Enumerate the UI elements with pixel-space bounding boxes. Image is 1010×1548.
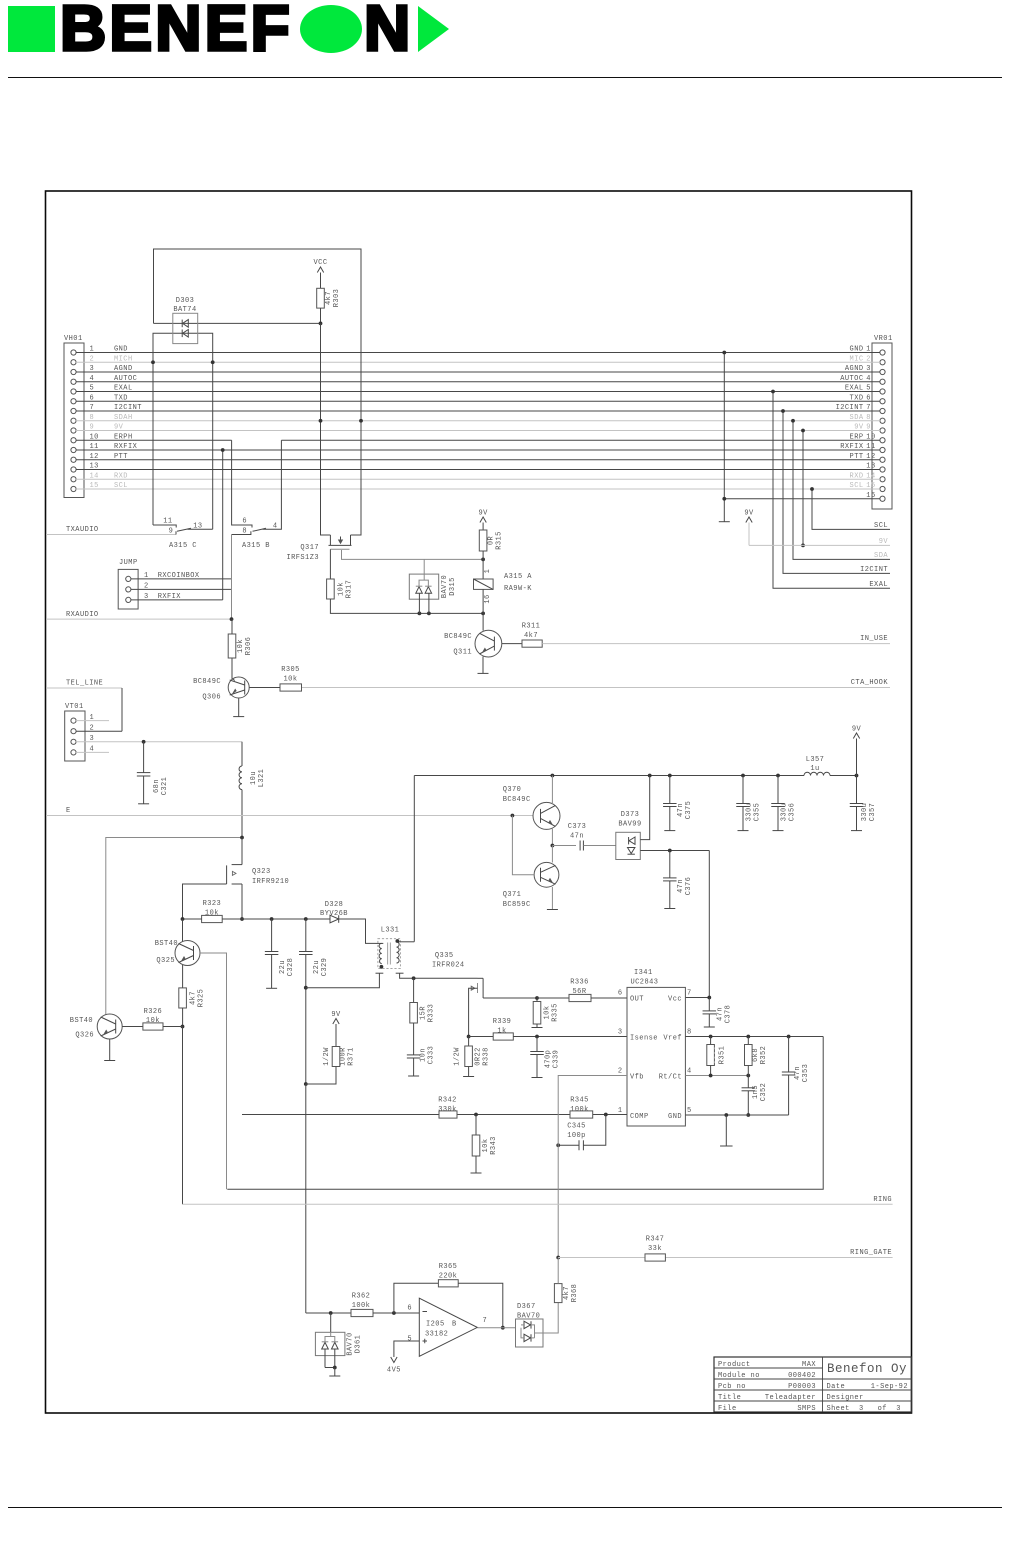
svg-text:D373: D373 [621,811,640,819]
svg-text:D367: D367 [517,1303,536,1311]
wire bus row 5 EXAL [76,391,880,393]
svg-text:C339: C339 [553,1050,561,1069]
wire C329 node chain [305,988,307,1084]
svg-text:100R: 100R [340,1047,348,1066]
svg-text:BC849C: BC849C [444,633,472,641]
switch A315 B [232,440,252,527]
wire R306 to Q306 [232,658,235,681]
svg-text:RXAUDIO: RXAUDIO [66,611,99,619]
svg-text:R305: R305 [281,666,300,674]
svg-text:1: 1 [484,569,492,574]
wire Vfb pin to chain [558,1076,627,1146]
svg-text:15: 15 [866,482,875,490]
svg-text:AUTOC: AUTOC [840,375,863,383]
wire Q306 emitter [238,699,240,717]
wire R336 to OUT pin [591,997,627,999]
ground C376 [664,908,675,910]
svg-text:IRFS1Z3: IRFS1Z3 [286,554,319,562]
header rule [8,77,1002,78]
ground C321 [138,803,149,805]
ground R343 [471,1172,482,1174]
ground GND drop [719,521,730,523]
resistor R368 [554,1284,562,1303]
wire R325 to node [182,1008,184,1027]
ground C356 [773,830,784,832]
resistor R351 [710,1037,712,1045]
svg-text:E: E [66,807,71,815]
svg-text:GND: GND [850,346,864,354]
svg-text:8: 8 [687,1029,692,1037]
svg-text:1n5: 1n5 [752,1085,760,1099]
wire L321 bottom [241,790,243,838]
svg-text:Vfb: Vfb [630,1074,644,1082]
resistor R306 [228,634,236,658]
wire 9V drop [802,431,804,546]
svg-text:TXD: TXD [850,394,864,402]
svg-text:10k: 10k [284,676,298,684]
ground C357 [851,830,862,832]
svg-text:C321: C321 [161,777,169,796]
wire R352 to C352 [747,1066,749,1088]
svg-text:TXD: TXD [114,394,128,402]
wire loop top [154,249,362,535]
Benefon logo text BENEF [60,0,293,65]
wire Q317 gate [329,549,331,579]
wire R326 to node [163,1026,183,1028]
svg-text:470p: 470p [545,1050,553,1069]
svg-text:1: 1 [618,1107,623,1115]
svg-text:I2CINT: I2CINT [114,404,142,412]
wire relay to Q311 [482,589,484,630]
wire bus row 10 ERPH left [76,439,232,441]
svg-text:2: 2 [90,355,95,363]
svg-text:RXD: RXD [850,472,864,480]
wire SCL drop [812,489,890,529]
connector VH01 [64,343,84,498]
capacitor C329 [305,919,307,952]
svg-text:7: 7 [90,404,95,412]
svg-text:10n: 10n [420,1048,428,1062]
svg-text:R351: R351 [719,1046,727,1065]
resistor R342 [439,1111,457,1118]
svg-text:3: 3 [866,365,871,373]
svg-text:TXAUDIO: TXAUDIO [66,526,99,534]
capacitor C339 [536,1037,538,1052]
title block [714,1357,912,1413]
svg-text:R317: R317 [346,580,354,599]
svg-text:5: 5 [90,385,95,393]
svg-text:Vref: Vref [663,1035,682,1043]
capacitor C378 [708,998,710,1011]
wire Q371 collector [551,846,553,863]
svg-text:1-Sep-92: 1-Sep-92 [871,1383,908,1391]
wire Q326 collector link [106,838,242,1015]
wire Q325 emitter [182,965,184,988]
wire Vfb chain down [557,1145,559,1257]
wire Vref feedback [227,1037,823,1190]
resistor R335 [536,998,538,1002]
wire Q311 emitter [482,657,484,674]
svg-text:47n: 47n [677,803,685,817]
wire R351 to RtCt [710,1066,712,1076]
svg-text:4k7: 4k7 [524,632,538,640]
svg-text:P00003: P00003 [788,1383,816,1391]
wire RING [183,1203,893,1205]
svg-text:330u: 330u [746,803,754,822]
capacitor C328 [271,919,273,952]
op-amp I341 UC2843 [627,987,685,1126]
wire opamp output [477,1327,515,1329]
svg-text:330k: 330k [438,1106,457,1114]
svg-text:R336: R336 [570,979,589,987]
svg-text:R333: R333 [428,1004,436,1023]
svg-text:10k: 10k [544,1006,552,1020]
resistor R317 [327,579,335,599]
resistor R311 [522,640,542,647]
svg-text:10k: 10k [146,1017,160,1025]
svg-text:0R: 0R [488,536,496,546]
wire bus row 10 ERP right [281,439,880,441]
wire RING_GATE [558,1257,645,1259]
svg-text:R368: R368 [571,1284,579,1303]
svg-text:D315: D315 [449,577,457,596]
diode D328 [322,918,330,920]
wire 9V label line [749,544,890,546]
wire Q371 emitter [551,887,553,910]
svg-text:A315 A: A315 A [504,573,532,581]
capacitor C355 [742,776,744,804]
wire TXAUDIO [46,534,176,536]
svg-text:0R22: 0R22 [475,1047,483,1066]
wire bus row 2 MICH [76,361,880,363]
svg-text:BAV99: BAV99 [618,821,641,829]
wire D303 lower [153,333,213,362]
wire RXAUDIO to R306 [231,619,233,634]
wire SDA drop [793,421,890,560]
svg-text:BAV70: BAV70 [441,575,449,598]
svg-text:OUT: OUT [630,996,644,1004]
diode D303 [173,313,198,343]
svg-text:47n: 47n [794,1066,802,1080]
wire Q371 base link [512,816,534,875]
wire Vfb divider drop [182,1027,184,1205]
svg-text:L331: L331 [381,927,400,935]
transistor Q325 [175,941,200,966]
wire A315B pin8 drop [231,535,233,620]
svg-text:13: 13 [193,523,202,531]
svg-text:R371: R371 [348,1047,356,1066]
svg-text:A315 B: A315 B [242,542,270,550]
wire D303 upper [154,322,321,324]
svg-text:4k7: 4k7 [563,1286,571,1300]
svg-text:6: 6 [407,1305,412,1313]
svg-text:C373: C373 [568,823,587,831]
ground R335 [532,1027,543,1029]
svg-text:ERP: ERP [850,433,864,441]
svg-text:3: 3 [618,1029,623,1037]
svg-text:9: 9 [866,424,871,432]
wire RtCt line [685,1075,748,1077]
capacitor C356 [777,776,779,804]
resistor R326 [143,1023,163,1030]
op-amp I205 [419,1298,477,1356]
svg-text:SDA: SDA [874,552,888,560]
svg-text:D303: D303 [176,297,195,305]
wire VT01 pin1 stub [76,720,109,722]
svg-text:COMP: COMP [630,1113,649,1121]
svg-text:L321: L321 [258,769,266,788]
svg-text:R342: R342 [438,1097,457,1105]
svg-text:UC2843: UC2843 [631,979,659,987]
wire R323 to C328 C329 D328 [242,918,330,920]
svg-text:33182: 33182 [425,1331,448,1339]
svg-text:1/2W: 1/2W [454,1047,462,1066]
Benefon logo green triangle [418,6,449,52]
svg-text:SDA: SDA [850,414,864,422]
svg-text:B: B [452,1321,457,1329]
svg-text:SDAH: SDAH [114,414,133,422]
wire D361 gnd [324,1349,326,1368]
svg-text:R323: R323 [203,900,222,908]
wire node to Q317 source [321,323,331,535]
svg-text:Pcb no: Pcb no [718,1383,746,1391]
svg-text:GND: GND [114,346,128,354]
svg-text:Sheet 3 of 3: Sheet 3 of 3 [827,1405,901,1413]
svg-text:D328: D328 [325,901,344,909]
svg-text:10k: 10k [482,1139,490,1153]
label Q335 node [467,1035,471,1039]
svg-text:Teleadapter: Teleadapter [765,1394,816,1402]
wire bus row 11 RXFIX [76,449,880,451]
svg-text:AUTOC: AUTOC [114,375,137,383]
wire R343 gnd [475,1156,477,1173]
svg-text:Module no: Module no [718,1372,760,1380]
svg-text:100k: 100k [570,1106,589,1114]
resistor R323 [202,915,223,922]
transistor Q306 [228,677,249,698]
svg-text:L357: L357 [806,756,825,764]
transistor Q326 [97,1014,122,1039]
wire rail to transformer [413,776,415,942]
wire bus row 7 I2CINT [76,410,880,412]
diode D361 [330,1313,332,1332]
wire bus row 8 SDAH [76,420,880,422]
wire R338 gnd [468,1067,470,1077]
svg-text:MIC: MIC [850,355,864,363]
wire Vref line [685,1036,823,1038]
wire TEL_LINE [46,687,122,689]
svg-text:Designer: Designer [827,1394,864,1402]
svg-text:Q335: Q335 [435,952,454,960]
svg-text:9V: 9V [879,538,889,546]
svg-text:C345: C345 [567,1123,586,1131]
svg-text:R362: R362 [352,1293,371,1301]
ground C333 [408,1075,419,1077]
svg-text:1: 1 [866,346,871,354]
svg-text:R339: R339 [493,1018,512,1026]
Benefon logo letter N [364,0,410,65]
svg-text:4: 4 [687,1068,692,1076]
wire R315 to node [482,551,484,559]
svg-text:9V: 9V [114,424,124,432]
svg-text:14: 14 [90,472,99,480]
svg-text:16: 16 [484,594,492,603]
svg-text:RING: RING [873,1196,892,1204]
svg-text:SCL: SCL [874,522,888,530]
svg-text:8: 8 [866,414,871,422]
transistor Q335 [478,977,484,979]
svg-text:15R: 15R [420,1006,428,1020]
resistor R336 [537,997,569,999]
wire bus row 3 AGND [76,371,880,373]
svg-text:R347: R347 [646,1236,665,1244]
capacitor C357 [856,776,858,804]
ground R338 [463,1076,474,1078]
svg-text:1u: 1u [810,765,819,773]
svg-text:Q311: Q311 [453,649,472,657]
svg-text:BAT74: BAT74 [173,306,196,314]
svg-text:15: 15 [90,482,99,490]
wire bus row 15 SCL [76,488,880,490]
svg-text:10k: 10k [237,639,245,653]
wire VT01 pin3 [76,741,242,743]
resistor R305 [280,684,302,691]
svg-text:D361: D361 [355,1335,363,1354]
svg-text:000402: 000402 [788,1372,816,1380]
wire JUMP row2 [131,588,232,590]
power 4V5 arrow [391,1357,397,1363]
svg-text:TEL_LINE: TEL_LINE [66,680,103,688]
svg-text:A315 C: A315 C [169,542,197,550]
Benefon logo green O [300,5,362,53]
svg-text:5: 5 [866,385,871,393]
svg-text:AGND: AGND [114,365,133,373]
resistor R352 [747,1037,749,1045]
svg-text:6k8: 6k8 [752,1048,760,1062]
capacitor C353 [788,1037,790,1073]
ground C355 [738,830,749,832]
wire Vcc chain [685,851,709,998]
wire Q306 collector [249,687,280,689]
svg-text:R352: R352 [760,1046,768,1065]
svg-text:22u: 22u [279,960,287,974]
svg-text:6: 6 [618,990,623,998]
svg-text:R303: R303 [333,289,341,308]
wire Q370 base [532,815,534,817]
svg-text:220k: 220k [439,1273,458,1281]
capacitor C375 [669,776,671,804]
wire L331 left bottom [306,973,380,988]
svg-text:4V5: 4V5 [387,1367,401,1375]
wire Q335 to OUT [483,997,537,999]
wire R362 to opamp [373,1312,419,1314]
svg-text:13: 13 [866,463,875,471]
svg-text:R338: R338 [483,1047,491,1066]
svg-text:RXD: RXD [114,472,128,480]
wire R365 to output [458,1283,503,1327]
wire VT01 pin4 stub [76,751,109,753]
ground I341 [720,1145,733,1147]
svg-text:IRFR024: IRFR024 [432,962,465,970]
ground C339 [532,1077,543,1079]
wire bus row 16 [724,498,880,500]
svg-text:JUMP: JUMP [119,559,138,567]
svg-text:1k: 1k [497,1028,506,1036]
svg-text:16: 16 [866,492,875,500]
svg-text:Isense: Isense [630,1035,658,1043]
svg-text:I2CINT: I2CINT [860,566,888,574]
svg-text:BC849C: BC849C [503,796,531,804]
svg-text:BC859C: BC859C [503,901,531,909]
transistor Q311 [475,630,502,657]
svg-text:Title: Title [718,1394,741,1402]
wire Q370 collector [551,776,553,805]
resistor R343 [475,1115,477,1136]
svg-text:SCL: SCL [850,482,864,490]
ground Q371 [547,909,558,911]
svg-text:VH01: VH01 [64,335,83,343]
svg-text:5: 5 [687,1107,692,1115]
svg-text:C352: C352 [760,1083,768,1102]
wire 9V rail [414,775,804,777]
wire bus row 12 PTT [76,459,880,461]
svg-text:Q371: Q371 [503,891,522,899]
wire Q326 emitter [109,1039,111,1061]
svg-text:MAX: MAX [802,1361,816,1369]
svg-text:13: 13 [90,463,99,471]
ground C328 [266,987,277,989]
svg-text:47n: 47n [570,833,584,841]
wire bus row 6 TXD [76,400,880,402]
svg-text:R311: R311 [522,623,541,631]
wire EXAL drop [773,392,890,589]
svg-text:BYV26B: BYV26B [320,910,348,918]
svg-text:68n: 68n [153,779,161,793]
svg-text:7: 7 [866,404,871,412]
svg-text:330u: 330u [861,803,869,822]
svg-text:4k7: 4k7 [190,991,198,1005]
resistor R325 [179,988,187,1008]
wire bus row 13 [76,469,880,471]
svg-text:R325: R325 [198,989,206,1008]
svg-text:3: 3 [90,365,95,373]
wire bus row 9 9V [76,430,880,432]
svg-text:C378: C378 [725,1005,733,1024]
wire E line [46,815,533,817]
capacitor C376 [669,851,671,878]
svg-text:R315: R315 [496,531,504,550]
diode D373 [616,832,641,859]
resistor R339 [469,1036,494,1038]
wire RXAUDIO [46,618,232,620]
svg-text:BST40: BST40 [70,1017,93,1025]
svg-text:8: 8 [242,528,247,536]
wire L331 right top [404,941,415,943]
resistor R333 [413,978,415,1002]
wire RXFIX drop [222,450,224,600]
wire opamp plus input [394,1341,419,1357]
svg-text:Q323: Q323 [252,868,271,876]
ground Q306 [233,716,244,718]
svg-text:5: 5 [407,1336,412,1344]
svg-text:22u: 22u [313,960,321,974]
svg-text:I2CINT: I2CINT [836,404,864,412]
svg-text:4k7: 4k7 [325,291,333,305]
svg-text:RXFIX: RXFIX [114,443,138,451]
svg-text:47n: 47n [677,879,685,893]
svg-text:PTT: PTT [850,453,864,461]
wire bus row 1 GND [76,352,880,354]
